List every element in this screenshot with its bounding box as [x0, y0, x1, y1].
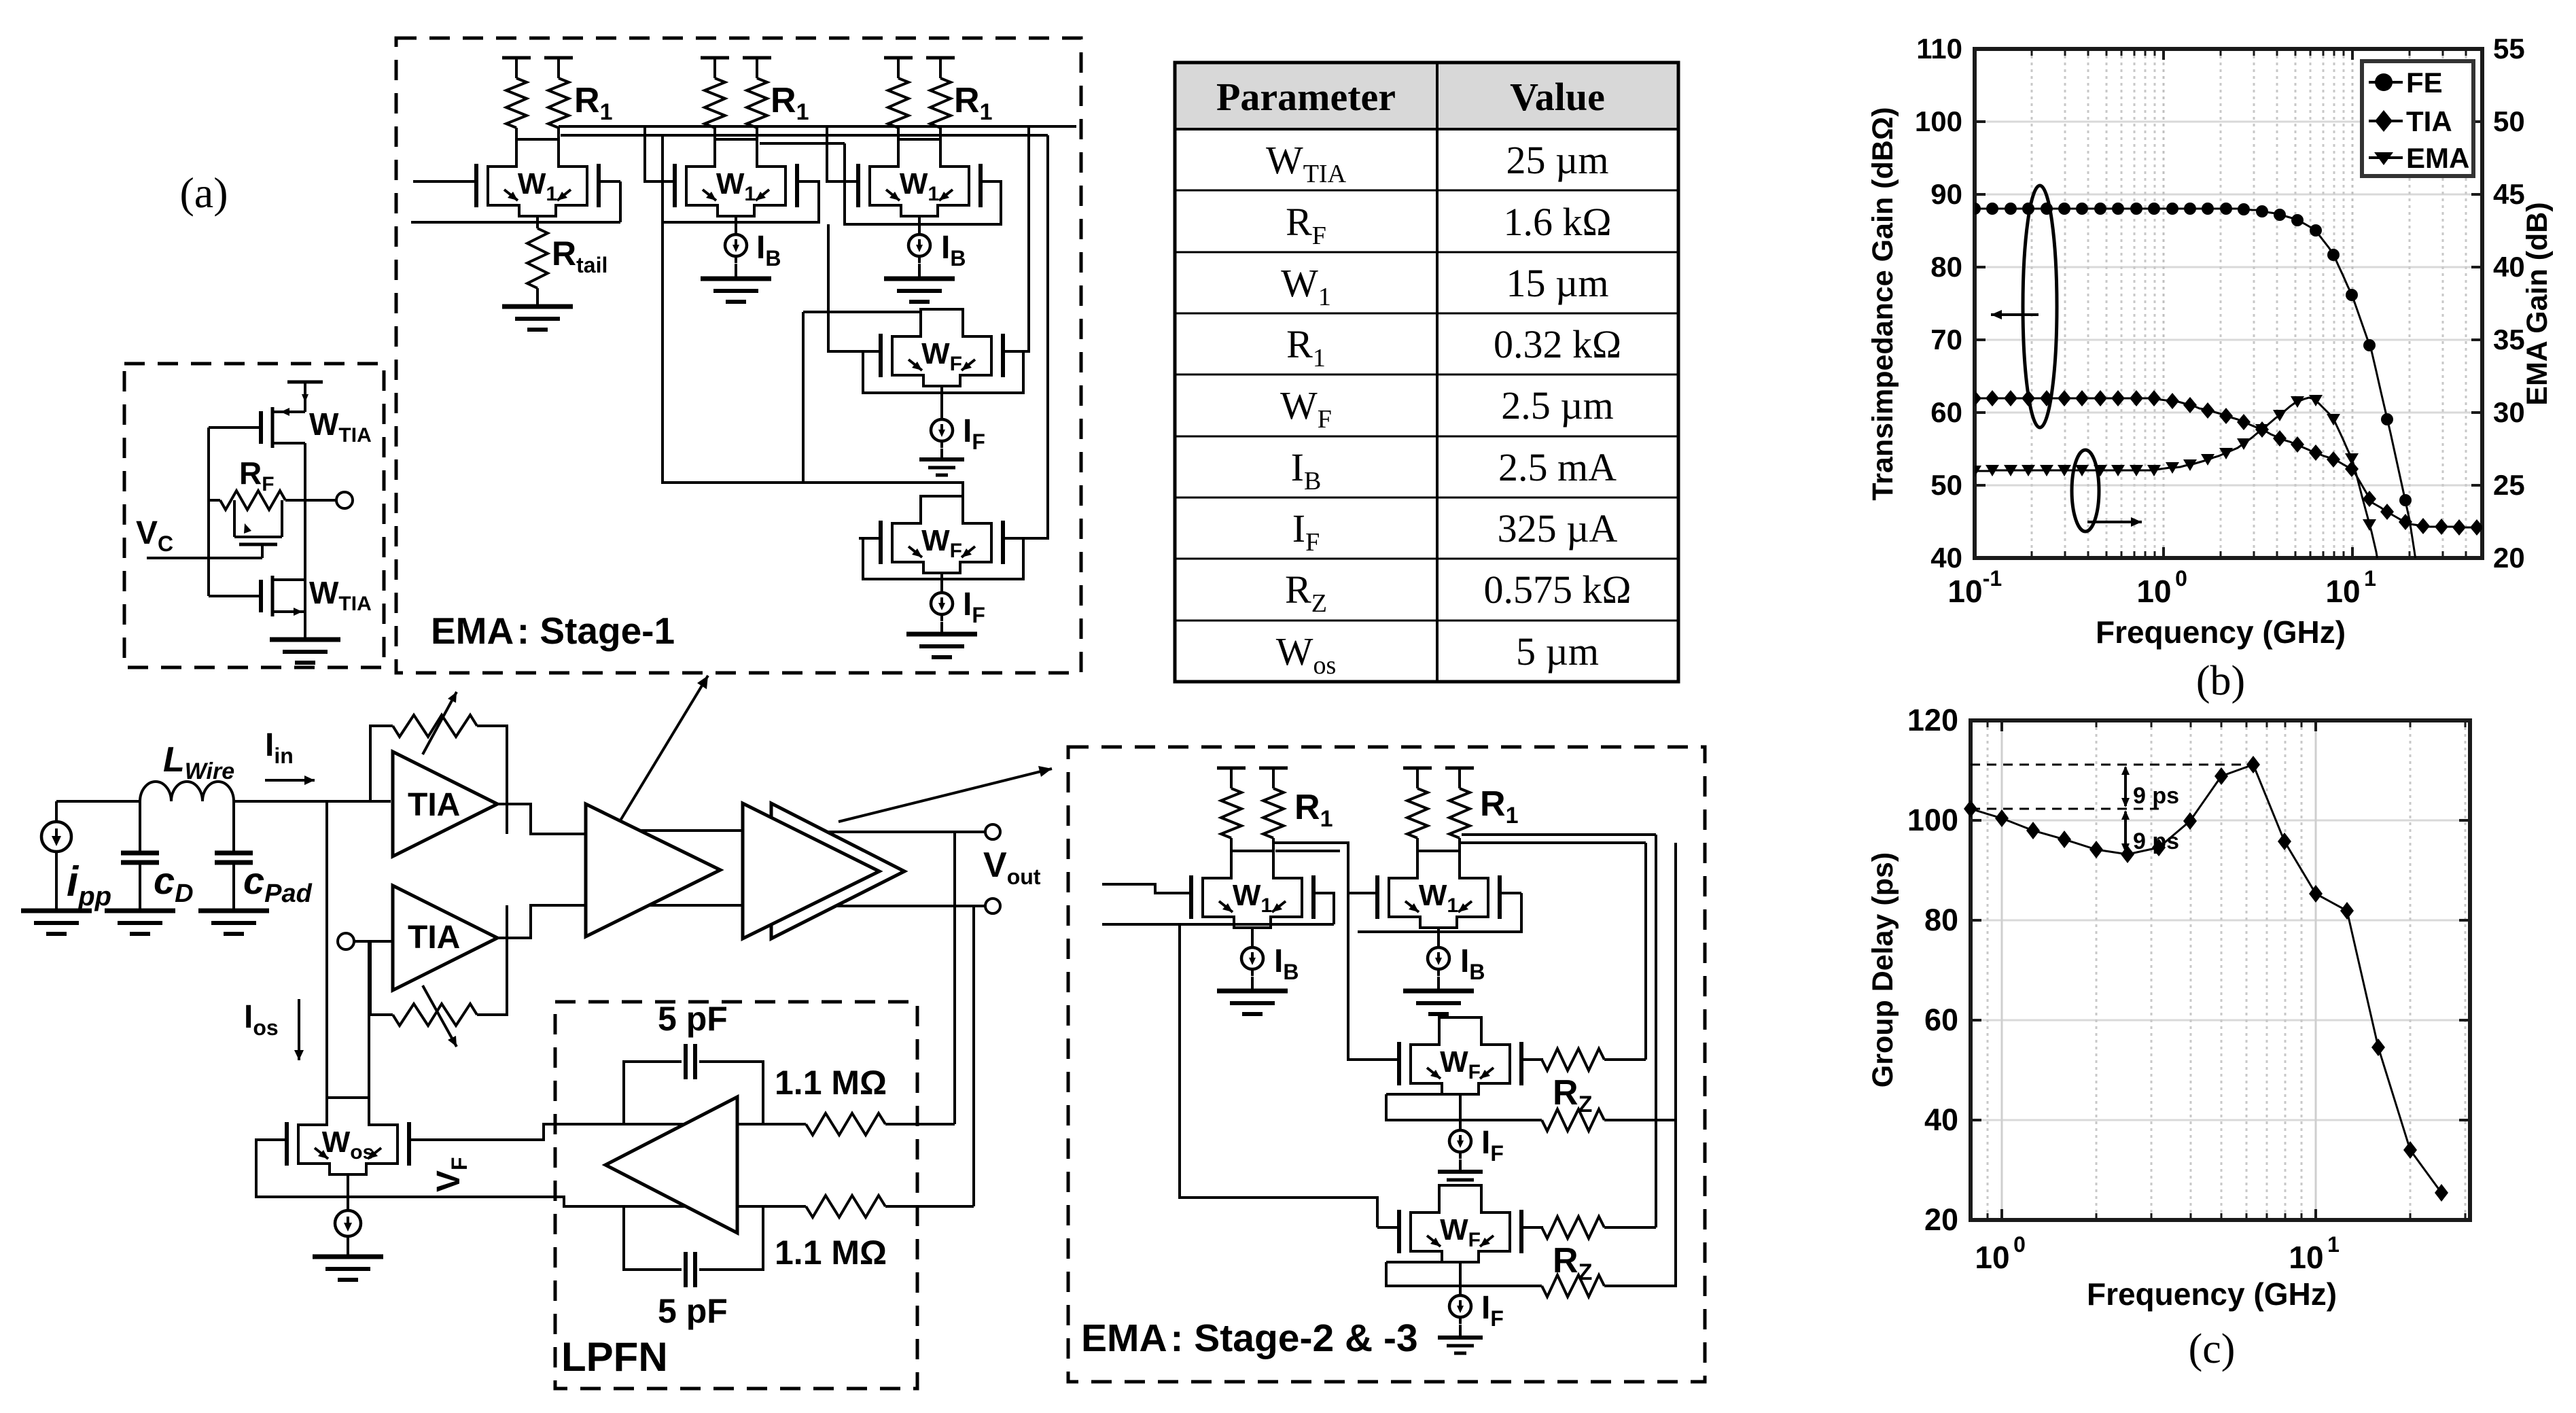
wire Vout top — [827, 831, 986, 833]
wire s2 pair1 right gate — [1333, 893, 1335, 924]
inductor LWire — [140, 782, 234, 801]
wire follower1 drain riser — [803, 311, 945, 313]
svg-text:Parameter: Parameter — [1216, 75, 1396, 119]
wire bus D — [760, 142, 845, 145]
VDD tee s2 pair2 right — [1445, 767, 1474, 770]
svg-text:10: 10 — [2136, 574, 2171, 609]
svg-text:1: 1 — [2364, 566, 2376, 591]
svg-text:Group Delay (ps): Group Delay (ps) — [1867, 852, 1899, 1087]
wire s2 pair2 out bus — [1460, 841, 1646, 844]
svg-text:325 µA: 325 µA — [1498, 506, 1618, 551]
annotation ellipse FE/TIA — [2023, 186, 2057, 428]
ground cD — [105, 909, 175, 913]
resistor RZ A bottom — [1386, 1094, 1542, 1120]
legend FE — [2369, 81, 2403, 84]
arrow Iin — [265, 779, 315, 782]
wire VF from LPFN to Wos gate — [431, 1124, 605, 1140]
wire to pair2 left gate — [645, 126, 653, 181]
svg-text:-1: -1 — [1983, 566, 2002, 591]
wire input node down to Wos — [325, 801, 328, 1098]
transistor pair W1 #1 — [488, 139, 587, 216]
wire node to cPad — [234, 800, 391, 803]
current source IF follower2 — [940, 586, 943, 621]
svg-text:5 pF: 5 pF — [658, 1292, 728, 1330]
VDD tee pair3 left — [884, 56, 913, 60]
wire long vertical mid — [663, 222, 963, 496]
wire s2 bus companion — [1275, 850, 1340, 852]
VDD tee pair2 right — [743, 56, 771, 60]
svg-text:20: 20 — [2493, 542, 2525, 574]
svg-text:60: 60 — [1924, 1002, 1958, 1037]
resistor RZ B top — [1542, 1217, 1604, 1238]
transistor WTIA (PMOS) — [271, 407, 275, 448]
wire input+ — [413, 180, 455, 183]
annotation arrow right axis — [2087, 521, 2142, 523]
wire RZ A riser — [1644, 843, 1647, 1060]
ground IF follower2 — [940, 622, 943, 634]
resistor R1 pair1 right — [548, 78, 569, 128]
variable resistor feedback TIA1 — [370, 726, 393, 801]
ground Wos — [313, 1255, 383, 1259]
resistor R1 pair3 right — [930, 78, 951, 128]
svg-text:1.1 MΩ: 1.1 MΩ — [775, 1064, 887, 1102]
wire s2 pair2 right gate loop — [1358, 893, 1521, 932]
svg-text:(b): (b) — [2196, 658, 2245, 704]
wire pair1 right gate — [619, 181, 622, 222]
label VF — [431, 1157, 472, 1192]
resistor 1.1M bottom — [806, 1196, 885, 1217]
svg-text:1.1 MΩ: 1.1 MΩ — [775, 1234, 887, 1272]
svg-text:(a): (a) — [179, 169, 228, 217]
annotation arrow left axis — [1991, 313, 2039, 316]
svg-text:100: 100 — [1907, 803, 1958, 837]
svg-text:Frequency (GHz): Frequency (GHz) — [2096, 614, 2346, 650]
svg-text:FE: FE — [2406, 67, 2443, 99]
svg-text:35: 35 — [2493, 324, 2525, 355]
wire input- — [411, 221, 620, 224]
VC input wire — [147, 557, 262, 559]
resistor 1.1M top — [806, 1113, 885, 1135]
svg-text:50: 50 — [1930, 469, 1962, 501]
svg-text:Frequency (GHz): Frequency (GHz) — [2087, 1276, 2337, 1312]
wire drains pair2 — [713, 128, 716, 139]
transistor pair W1 s2 #2 — [1389, 851, 1488, 928]
wire TIA2 node down to Wos — [368, 941, 370, 1098]
svg-text:0: 0 — [2013, 1232, 2026, 1257]
wire WF-A source — [1459, 1094, 1462, 1127]
VDD tee s2 pair1 right — [1259, 767, 1288, 770]
current source IB s2 pair2 — [1437, 928, 1440, 941]
resistor R1 s2 pair1 right — [1263, 788, 1284, 838]
ground IB pair2 — [701, 277, 771, 281]
resistor R1 s2 pair2 right — [1449, 788, 1470, 838]
wire bus B — [561, 134, 1048, 137]
transistor follower WF #1 — [892, 309, 991, 386]
parameter table — [1175, 63, 1678, 129]
VDD tee pair2 left — [701, 56, 729, 60]
svg-text:0.32 kΩ: 0.32 kΩ — [1494, 322, 1621, 366]
curve group delay — [1971, 765, 2441, 1193]
wire bus A top — [559, 125, 1076, 128]
wire right bus to follower2 gate — [1025, 135, 1048, 538]
svg-text:(c): (c) — [2189, 1326, 2236, 1372]
current source IB pair3 — [918, 216, 921, 228]
VDD supply bar — [287, 381, 323, 384]
ground IF follower1 — [940, 449, 943, 459]
input terminal TIA2 — [338, 933, 354, 949]
curve TIA — [1975, 398, 2482, 527]
svg-text:EMA Gain (dB): EMA Gain (dB) — [2521, 202, 2554, 405]
annotation ellipse EMA — [2072, 450, 2099, 531]
wire stage2 out bottom — [649, 904, 771, 907]
current source IF s2-A — [1459, 1123, 1462, 1159]
wire feed WF-A gate — [1348, 893, 1377, 1060]
svg-text:9 ps: 9 ps — [2133, 783, 2179, 809]
ground IB s2 pair2 — [1403, 989, 1474, 994]
wire stage2 out top — [639, 829, 771, 832]
legend TIA — [2369, 120, 2403, 122]
svg-text:EMA : Stage-1: EMA : Stage-1 — [431, 610, 675, 652]
wire input node — [56, 800, 140, 803]
VDD tee pair3 right — [926, 56, 955, 60]
wire Vout bottom — [834, 905, 986, 907]
transistor pair W1 s2 #1 — [1203, 851, 1302, 928]
svg-text:110: 110 — [1916, 33, 1962, 65]
wire follower1 source — [940, 386, 943, 416]
current source IF follower1 — [940, 413, 943, 448]
wire follower1 feedback — [863, 351, 1023, 393]
resistor R1 pair3 left — [888, 78, 908, 128]
resistor R1 pair2 left — [705, 78, 725, 128]
transistor follower WF-B — [1411, 1185, 1510, 1262]
svg-text:TIA: TIA — [2406, 105, 2452, 137]
transistor Wos — [298, 1098, 398, 1174]
svg-text:Value: Value — [1510, 75, 1605, 119]
VDD tee s2 pair1 left — [1217, 767, 1246, 770]
ground cPad — [198, 909, 269, 913]
VDD tee pair1 left — [502, 56, 531, 60]
annotation arrow 9ps upper — [2124, 767, 2127, 806]
capacitor cPad — [232, 801, 235, 853]
variable resistor feedback TIA2 — [370, 941, 393, 1015]
capacitor 5pF bottom loop — [624, 1206, 682, 1270]
svg-text:1: 1 — [2327, 1232, 2340, 1257]
svg-text:50: 50 — [2493, 105, 2525, 137]
legend EMA — [2369, 156, 2403, 159]
annotation arrow 9ps lower — [2124, 812, 2127, 852]
wire WF-B source — [1459, 1262, 1462, 1292]
arrow Ios — [298, 999, 300, 1060]
current source IF s2-B — [1459, 1289, 1462, 1324]
svg-text:LPFN: LPFN — [561, 1334, 668, 1380]
left gate rail wire — [207, 428, 210, 596]
legend box — [2362, 61, 2473, 176]
svg-text:100: 100 — [1915, 105, 1962, 137]
wire Wos source — [347, 1174, 349, 1209]
svg-text:TIA: TIA — [408, 787, 460, 823]
svg-text:EMA : Stage-2 & -3: EMA : Stage-2 & -3 — [1081, 1316, 1418, 1360]
svg-text:30: 30 — [2493, 396, 2525, 428]
wire to pair2 right gate — [663, 135, 819, 222]
svg-text:2.5 µm: 2.5 µm — [1501, 383, 1614, 428]
capacitor 5pF top loop — [624, 1062, 682, 1124]
svg-text:10: 10 — [2289, 1240, 2323, 1275]
amp TIA1 — [393, 752, 497, 856]
wire bottom return to LPFN — [256, 1197, 605, 1206]
svg-text:40: 40 — [1924, 1102, 1958, 1137]
wire feed WF-B gate — [1180, 924, 1377, 1227]
VDD tee s2 pair2 left — [1403, 767, 1432, 770]
amp stage3 (double triangle) — [771, 803, 904, 939]
EMA Stage-1 dashed box — [396, 38, 1081, 673]
current source IB pair2 — [735, 216, 737, 228]
wire follower2 source — [940, 573, 943, 589]
svg-text:5 µm: 5 µm — [1516, 629, 1599, 674]
arrow to EMA Stage-2 — [839, 769, 1052, 822]
svg-text:2.5 mA: 2.5 mA — [1498, 445, 1617, 489]
VDD tee pair1 right — [544, 56, 573, 60]
curve FE — [1975, 209, 2482, 776]
svg-text:5 pF: 5 pF — [658, 1000, 728, 1038]
svg-text:80: 80 — [1924, 903, 1958, 937]
wire drains pair1 — [515, 128, 518, 139]
resistor Rtail — [536, 216, 539, 228]
LPFN dashed box — [555, 1002, 917, 1389]
transistor pair W1 #3 — [870, 139, 969, 216]
wire to pair3 right gate — [845, 143, 1001, 224]
transistor follower WF #2 — [892, 496, 991, 573]
wire Wos gate-source left loop — [256, 1140, 348, 1197]
svg-text:TIA: TIA — [408, 920, 460, 956]
RF control FET — [233, 500, 236, 537]
wire RZ B riser — [1655, 835, 1657, 1227]
arrow to EMA Stage-1 — [618, 676, 708, 824]
svg-text:10: 10 — [1975, 1240, 2009, 1275]
annotation dashed line 111ps — [1971, 764, 2253, 766]
resistor RF — [209, 499, 220, 502]
wire WF-B feedback — [1386, 1261, 1460, 1263]
svg-text:25: 25 — [2493, 469, 2525, 501]
wire LPFN bottom line — [574, 1205, 806, 1208]
wire follower2 feedback — [863, 538, 1023, 579]
resistor RZ B bottom — [1386, 1262, 1542, 1286]
capacitor cD — [139, 801, 141, 853]
transistor pair W1 #2 — [686, 139, 786, 216]
output terminal — [305, 499, 336, 502]
current source IB s2 pair1 — [1251, 928, 1254, 941]
resistor R1 s2 pair2 left — [1407, 788, 1428, 838]
wire s2 pair1 out to pair2 gate — [1273, 843, 1356, 893]
right output rail wire — [304, 443, 306, 640]
EMA Stage-2and3 dashed box — [1068, 747, 1705, 1382]
TIA core block dashed box — [124, 364, 384, 667]
current source ipp — [55, 801, 58, 819]
ground IF s2-A — [1459, 1159, 1462, 1172]
resistor R1 pair1 left — [506, 78, 527, 128]
wire Vout- to LPFN — [972, 906, 975, 1206]
svg-text:60: 60 — [1930, 396, 1962, 428]
svg-text:9 ps: 9 ps — [2133, 828, 2179, 854]
wire TIA2 output — [497, 905, 586, 938]
annotation dashed line 102ps — [1971, 808, 2159, 810]
svg-text:120: 120 — [1907, 703, 1958, 737]
wire s2 input- — [1102, 923, 1334, 926]
amp TIA2 — [393, 886, 497, 990]
ground ipp — [21, 909, 92, 913]
wire LPFN top line — [574, 1123, 806, 1126]
svg-text:Transimpedance Gain (dBΩ): Transimpedance Gain (dBΩ) — [1867, 107, 1899, 500]
ground Rtail — [502, 304, 573, 309]
svg-text:15 µm: 15 µm — [1506, 261, 1608, 305]
wire Vout+ to LPFN — [953, 832, 956, 1124]
svg-text:10: 10 — [1947, 574, 1982, 609]
svg-text:70: 70 — [1930, 324, 1962, 355]
resistor RZ A top — [1542, 1049, 1604, 1070]
svg-text:0: 0 — [2175, 566, 2187, 591]
ground IB pair3 — [884, 277, 955, 281]
ground — [270, 638, 340, 642]
svg-text:10: 10 — [2325, 574, 2360, 609]
graph c plot area — [1971, 1119, 2470, 1121]
svg-text:55: 55 — [2493, 33, 2525, 65]
terminal Vout- — [985, 899, 1000, 913]
svg-text:80: 80 — [1930, 251, 1962, 283]
svg-text:90: 90 — [1930, 178, 1962, 210]
wire right bus to follower1 gate — [1025, 126, 1029, 351]
wire long vertical left — [802, 312, 805, 483]
svg-text:EMA: EMA — [2406, 142, 2469, 174]
svg-text:1.6 kΩ: 1.6 kΩ — [1503, 200, 1611, 244]
terminal Vout+ — [985, 824, 1000, 839]
wire TIA1 output — [497, 804, 586, 834]
resistor R1 pair2 right — [747, 78, 767, 128]
svg-text:20: 20 — [1924, 1202, 1958, 1237]
resistor R1 s2 pair1 left — [1221, 788, 1241, 838]
transistor follower WF-A — [1411, 1017, 1510, 1094]
current source Ios tail — [347, 1204, 349, 1243]
wire drains pair3 — [897, 128, 900, 139]
wire to pair3 left gate — [827, 126, 836, 181]
curve EMA — [1975, 398, 2482, 652]
ground IB s2 pair1 — [1217, 989, 1288, 994]
wire s2 input+ — [1102, 884, 1169, 893]
svg-text:40: 40 — [2493, 251, 2525, 283]
wire follower1 gate feed — [828, 224, 859, 351]
svg-text:25 µm: 25 µm — [1506, 138, 1608, 182]
svg-text:40: 40 — [1930, 542, 1962, 574]
transistor WTIA (NMOS) — [271, 576, 275, 616]
ground IF s2-B — [1459, 1325, 1462, 1338]
svg-text:45: 45 — [2493, 178, 2525, 210]
svg-text:0.575 kΩ: 0.575 kΩ — [1483, 568, 1631, 612]
wire WF-A feedback — [1386, 1093, 1460, 1096]
